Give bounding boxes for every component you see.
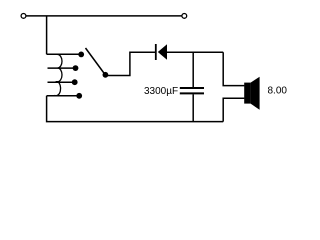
wire diode to right (167, 51, 223, 53)
wire contact lead 3 (48, 81, 75, 83)
diode D1 cathode bar (155, 44, 157, 60)
node contact 3 (72, 79, 78, 85)
node contact 2 (73, 65, 79, 71)
wire bottom rail (47, 96, 224, 122)
svg-text:8.00: 8.00 (268, 86, 288, 97)
wire capacitor top lead (192, 52, 194, 87)
wire speaker bottom lead (223, 98, 244, 121)
switch arm S1 (86, 48, 106, 75)
wire contact lead 4 (47, 95, 80, 97)
speaker LS1 cone (251, 77, 260, 110)
svg-text:3300µF: 3300µF (144, 86, 178, 97)
node switch common (103, 72, 109, 78)
speaker LS1 body (244, 83, 250, 104)
wire capacitor bottom lead (192, 94, 194, 121)
terminal right (182, 14, 187, 19)
wire switch to diode (105, 52, 155, 75)
node contact 4 (76, 93, 82, 99)
capacitor C1 plate bottom (180, 92, 204, 94)
wire top rail (24, 15, 185, 17)
capacitor C1 plate top (180, 87, 204, 89)
wire drop to relay coil (46, 16, 48, 54)
wire contact lead 2 (48, 67, 76, 69)
relay K1 coil (54, 55, 62, 96)
wire relay top lead (47, 53, 81, 55)
terminal left (21, 14, 26, 19)
wire speaker top lead (223, 52, 244, 85)
diode D1 triangle (158, 44, 167, 60)
node NO contact (78, 52, 84, 58)
